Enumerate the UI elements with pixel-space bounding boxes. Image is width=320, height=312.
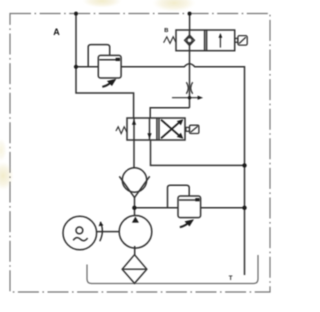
relief valve V2 drain arrow — [180, 223, 188, 227]
pilot line of relief valve V1 — [88, 45, 110, 67]
valve B body (pilot check / 2-way cartridge) — [176, 30, 235, 51]
stain left-edge2 — [0, 138, 7, 162]
junction node return bus upper — [242, 163, 246, 167]
tank outline — [87, 255, 258, 284]
wire: check valve to pump inlet node — [134, 198, 136, 216]
svg-text:B: B — [164, 28, 168, 34]
junction node pump inlet — [132, 206, 136, 210]
enclosure boundary (dash-dot frame) — [10, 14, 270, 293]
junction node return bus lower — [242, 206, 246, 210]
junction node on top border (valve B) — [188, 12, 192, 16]
filter F1 — [122, 255, 147, 284]
stain top-center — [152, 0, 196, 12]
wire: node to relief valve V2 — [134, 207, 178, 209]
junction node on top border (line A) — [74, 12, 78, 16]
junction node bleed arrow crossing — [188, 96, 191, 99]
relief valve V1 drain arrow — [102, 83, 110, 87]
valve B check poppet diamond — [189, 30, 191, 51]
relief valve V1 body — [98, 55, 121, 78]
valve B flow arrow — [219, 36, 221, 48]
coupling rotation arrow — [100, 222, 103, 241]
wire: main pressure line A (top border down) — [76, 14, 134, 119]
wire: throttle down-left into valve W top — [150, 108, 189, 118]
svg-text:A: A — [53, 27, 60, 37]
relief valve V2 spring tab — [195, 198, 199, 201]
wire: relief V1 out to right bus with hop over vertical — [121, 64, 244, 275]
check valve CV1 (ball in seat) — [119, 168, 149, 198]
wire: pump to filter — [134, 246, 136, 255]
wire: top border to valve B — [189, 14, 191, 31]
relief valve V1 spring tab — [116, 58, 120, 61]
wire: valve B bottom through throttle — [189, 51, 191, 108]
valve W solenoid — [186, 125, 199, 133]
wire: motor shaft — [97, 231, 120, 233]
stain left-edge — [0, 161, 14, 191]
valve W down arrowhead — [147, 133, 151, 139]
bleed flow arrow — [172, 97, 199, 99]
pump P1 — [119, 216, 152, 249]
junction node relief V1 branch — [74, 65, 78, 69]
valve W spring — [116, 127, 127, 134]
wire: branch to relief valve V1 — [76, 66, 98, 68]
pilot line of relief valve V2 — [168, 185, 190, 208]
wire: valve W return to bus — [151, 140, 245, 165]
wire: valve W to check valve — [133, 140, 135, 168]
valve W body (solenoid directional valve) — [127, 118, 185, 140]
throttle (restrictor) on valve B drain — [186, 82, 192, 94]
valve B solenoid — [235, 36, 247, 46]
stain top-left — [82, 0, 122, 8]
electric motor M1 — [63, 216, 97, 250]
pump flow triangle — [132, 217, 139, 223]
valve B spring — [164, 37, 176, 44]
valve W parallel flow lines — [133, 118, 135, 140]
wire: relief V2 out to bus — [201, 207, 245, 209]
relief valve V2 body — [178, 196, 201, 218]
valve W crossed arrows — [161, 120, 181, 139]
svg-text:T: T — [229, 275, 233, 282]
valve W up arrowhead — [132, 119, 136, 125]
